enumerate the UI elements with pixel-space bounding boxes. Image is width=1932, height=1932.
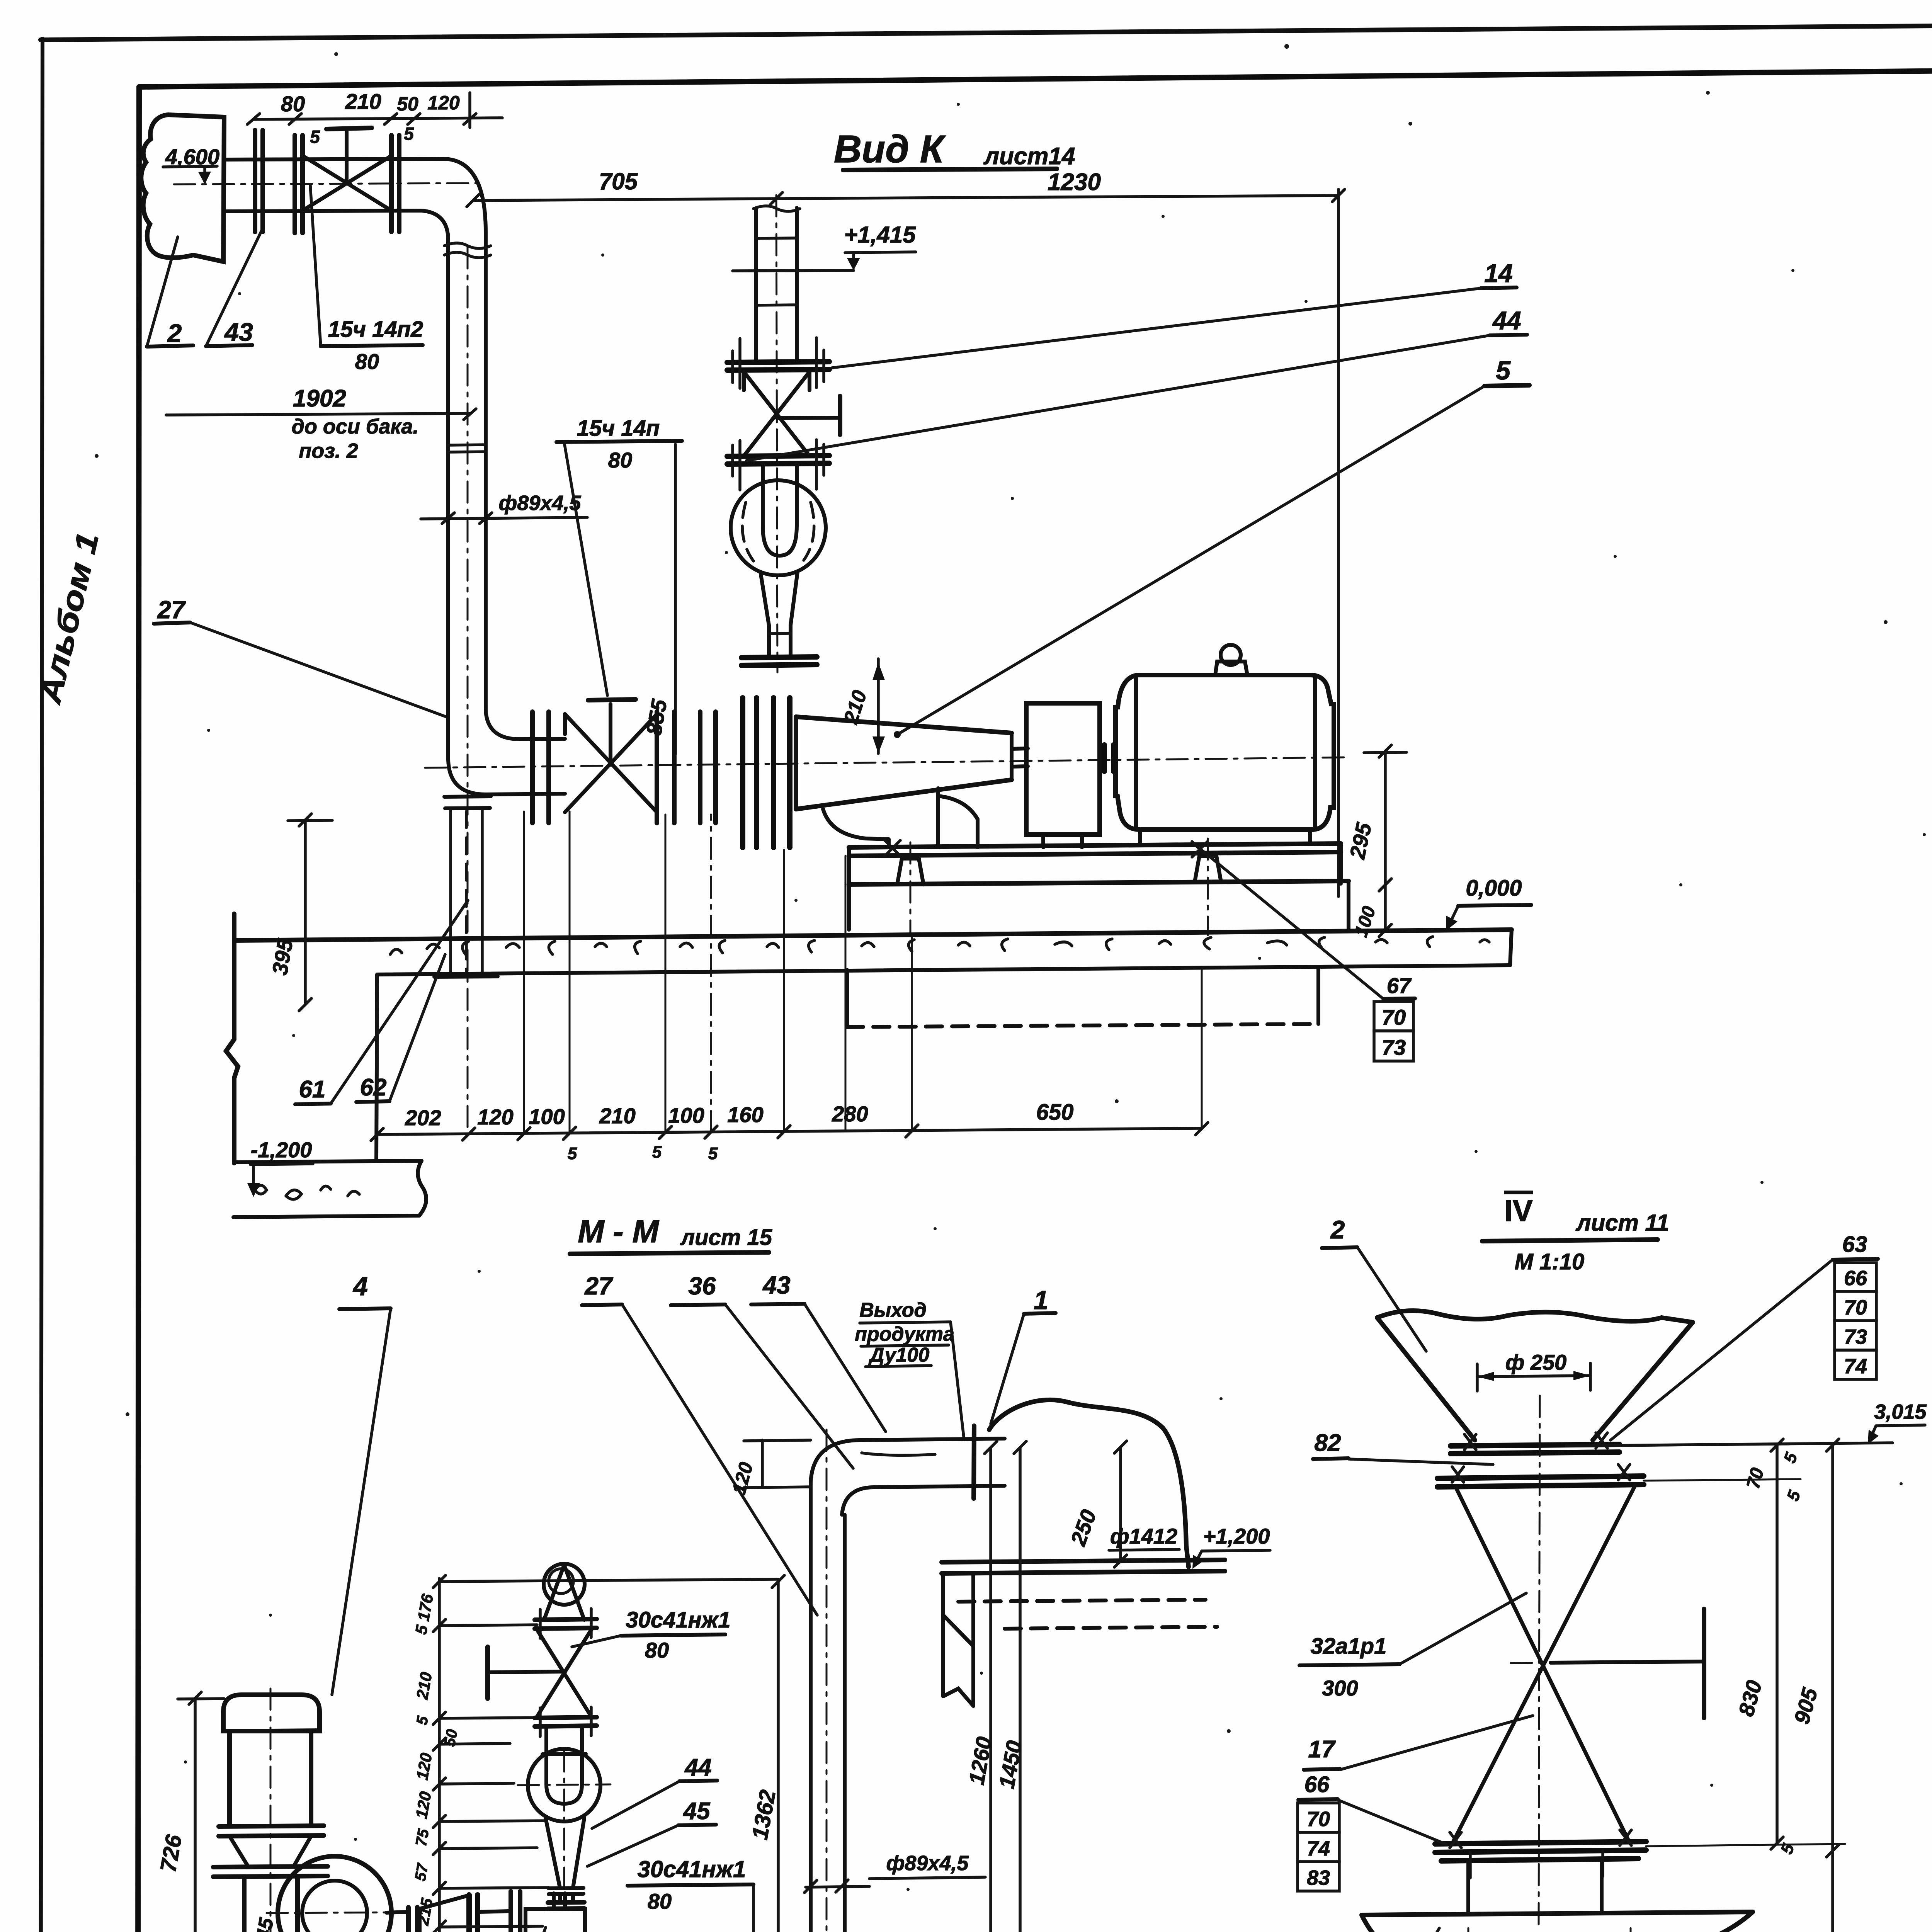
svg-text:73: 73: [1382, 1035, 1406, 1060]
svg-text:83: 83: [1307, 1866, 1330, 1889]
pipe top edge: [224, 159, 486, 232]
leader 67: [1202, 850, 1415, 999]
floor top line: [234, 930, 1512, 940]
svg-text:43: 43: [224, 318, 253, 346]
svg-text:75: 75: [413, 1827, 432, 1847]
floor step: [376, 975, 377, 1160]
dim ф250: [1477, 1350, 1590, 1391]
discharge spool: [479, 1911, 509, 1932]
svg-text:66: 66: [1304, 1772, 1330, 1797]
svg-text:5: 5: [404, 124, 414, 144]
leader label 14: [832, 259, 1517, 368]
inner frame top: [139, 71, 1932, 87]
label podvod vody: [242, 1927, 546, 1932]
boxed label 70: [1374, 1002, 1413, 1031]
stack pipe top break: [753, 206, 800, 211]
tank bottom plate: [942, 1560, 1225, 1629]
label 36: [671, 1272, 853, 1468]
dim chain line: [377, 1128, 1202, 1134]
label 61: [295, 900, 468, 1104]
dim 120 elbow: [728, 1440, 811, 1497]
svg-text:300: 300: [1322, 1676, 1358, 1700]
svg-text:100: 100: [529, 1104, 565, 1129]
label ф1412: [1109, 1524, 1179, 1550]
svg-text:лист 11: лист 11: [1575, 1210, 1669, 1236]
svg-text:5: 5: [652, 1143, 662, 1162]
flange pair F3: [391, 135, 399, 232]
svg-text:120: 120: [477, 1105, 513, 1129]
discharge flange: [469, 1895, 478, 1932]
svg-text:15ч 14п2: 15ч 14п2: [328, 317, 423, 342]
level mark +1,415: [733, 222, 916, 271]
IV extension lines: [1619, 1444, 1845, 1846]
svg-text:705: 705: [599, 168, 638, 194]
flange pair F1: [255, 130, 263, 232]
label 43 mm: [751, 1271, 886, 1432]
riser pipe left wall: [446, 240, 450, 760]
mm riser right wall: [843, 1515, 847, 1932]
svg-text:0,000: 0,000: [1466, 876, 1522, 901]
svg-text:27: 27: [584, 1272, 614, 1300]
IV bottom flange: [1435, 1830, 1646, 1878]
tank support bracket: [943, 1573, 973, 1706]
svg-text:до оси бака.: до оси бака.: [292, 415, 419, 438]
svg-text:120: 120: [427, 92, 460, 114]
svg-text:73: 73: [1844, 1325, 1867, 1349]
dim 1902: [166, 385, 476, 463]
ladder dim lines: [439, 1579, 778, 1932]
dim 905: [1789, 1439, 1839, 1857]
IV centerline vertical: [1539, 1396, 1540, 1927]
IV centerline horizontal: [1511, 1662, 1704, 1663]
svg-text:210: 210: [599, 1104, 635, 1128]
svg-text:IV: IV: [1504, 1194, 1533, 1228]
tank 2 wall blob: [141, 115, 224, 262]
dimension line 80/210/50/120: [247, 93, 502, 128]
svg-text:61: 61: [299, 1076, 326, 1103]
dim 250: [1066, 1441, 1127, 1567]
stack centerline: [776, 195, 777, 672]
label 2 IV: [1322, 1215, 1426, 1351]
stack top circle: [544, 1564, 585, 1605]
svg-text:70: 70: [1382, 1005, 1406, 1029]
stack lower flange: [535, 1707, 597, 1736]
label 2: [147, 237, 193, 347]
motor flange: [213, 1826, 328, 1877]
suction flange pair C: [700, 712, 716, 823]
svg-text:ф 250: ф 250: [1505, 1350, 1567, 1374]
dim 855: [641, 444, 675, 754]
bearing block: [1026, 703, 1100, 847]
suction pipe centerline: [174, 183, 479, 184]
label ф89х4,5 mm: [804, 1852, 985, 1893]
dim 100: [1351, 885, 1391, 939]
pipe bottom edge: [224, 211, 448, 240]
svg-text:32а1р1: 32а1р1: [1311, 1634, 1387, 1659]
stack valve stem T: [488, 1647, 564, 1699]
ladder texts: [409, 1592, 461, 1932]
dim 395 vertical: [267, 814, 332, 1011]
svg-text:3,015: 3,015: [1874, 1400, 1927, 1423]
svg-text:+1,200: +1,200: [1203, 1524, 1270, 1548]
elbow circle: [731, 480, 826, 575]
svg-text:50: 50: [397, 93, 418, 115]
pump inlet flange bars: [743, 698, 790, 847]
dim 1362 vertical: [747, 1575, 784, 1932]
floor hatch squiggles: [390, 937, 1489, 954]
svg-text:100: 100: [668, 1103, 704, 1128]
svg-text:66: 66: [1844, 1267, 1867, 1290]
suction flange pair B: [657, 712, 674, 823]
svg-text:лист14: лист14: [983, 143, 1075, 170]
pump foot: [889, 788, 978, 847]
mm riser elbow top: [811, 1439, 973, 1515]
motor feet and baseplate: [849, 830, 1341, 884]
leader label 5: [894, 356, 1529, 738]
label 30c41nj1 top: [572, 1607, 731, 1662]
stack top flange: [535, 1565, 597, 1638]
svg-text:ф89х4,5: ф89х4,5: [886, 1852, 969, 1875]
stack pipe left wall: [754, 209, 758, 361]
svg-text:ф89х4,5: ф89х4,5: [499, 492, 582, 515]
svg-text:Вид К: Вид К: [834, 128, 946, 171]
level mark 4,600: [163, 145, 219, 184]
riser centerline: [467, 247, 469, 1132]
reducer cone below elbow: [760, 572, 798, 657]
left label stack boxes: [1298, 1803, 1339, 1891]
discharge cone: [420, 1896, 468, 1932]
ladder ticks: [433, 1575, 446, 1932]
svg-text:М 1:10: М 1:10: [1515, 1249, 1585, 1274]
svg-text:67: 67: [1387, 973, 1412, 998]
mm riser left wall: [809, 1486, 813, 1932]
outer border top: [41, 26, 1932, 40]
vertical pump motor: [223, 1689, 320, 1932]
foundation top: [849, 881, 1349, 930]
suction valve stem: [588, 699, 636, 763]
pump discharge pipe: [386, 1907, 417, 1932]
inlet flange plate: [742, 657, 817, 665]
IV valve stem T: [1551, 1609, 1704, 1718]
tee body: [511, 1891, 585, 1932]
IV funnel: [1377, 1311, 1693, 1440]
svg-text:лист 15: лист 15: [680, 1225, 772, 1250]
svg-text:2: 2: [1330, 1215, 1345, 1244]
svg-text:63: 63: [1842, 1232, 1867, 1257]
svg-text:80: 80: [648, 1889, 672, 1913]
svg-text:14: 14: [1484, 259, 1512, 287]
svg-text:4: 4: [352, 1272, 368, 1301]
pit slab: [233, 1161, 426, 1217]
dim 295: [1345, 745, 1406, 891]
level +1,200: [1192, 1524, 1270, 1569]
svg-text:+1,415: +1,415: [844, 222, 916, 248]
svg-text:70: 70: [1307, 1808, 1330, 1831]
level 3,015: [1566, 1400, 1927, 1446]
svg-text:43: 43: [762, 1271, 790, 1299]
centerline pad right: [1207, 838, 1209, 935]
svg-text:5: 5: [708, 1144, 718, 1163]
right label stack 63: [1611, 1232, 1878, 1440]
svg-text:ф1412: ф1412: [1110, 1524, 1177, 1548]
IV top flange bar 1: [1451, 1433, 1619, 1454]
label 62: [356, 954, 445, 1102]
svg-text:280: 280: [832, 1102, 868, 1126]
label 4: [332, 1272, 391, 1695]
IV top flange bar 2: [1437, 1464, 1644, 1487]
svg-text:80: 80: [281, 92, 305, 116]
label vyhod produkta: [855, 1299, 964, 1440]
coupling: [1104, 745, 1114, 771]
label 32a1p1/300: [1299, 1593, 1526, 1700]
svg-text:62: 62: [360, 1074, 387, 1101]
svg-text:44: 44: [684, 1754, 712, 1781]
label 15ч14п/80: [556, 416, 682, 696]
svg-text:1230: 1230: [1048, 169, 1101, 196]
svg-text:поз. 2: поз. 2: [299, 439, 358, 463]
svg-text:5: 5: [310, 127, 320, 147]
label 1: [991, 1286, 1056, 1424]
stack valve 14 body: [744, 372, 810, 456]
label 82: [1313, 1430, 1493, 1464]
tank 1 wall: [989, 1400, 1189, 1567]
svg-text:45: 45: [683, 1798, 711, 1825]
elbow U pipe: [742, 464, 814, 561]
svg-text:15ч 14п: 15ч 14п: [577, 416, 660, 441]
ladder line: [438, 1578, 441, 1932]
motor lifting eye: [1215, 645, 1247, 675]
wall left edge: [226, 914, 238, 1163]
leader label 44: [747, 306, 1527, 461]
label 44 mm: [592, 1754, 717, 1828]
svg-text:74: 74: [1307, 1837, 1330, 1860]
elbow support column: [434, 810, 498, 977]
valve 43 stem: [327, 128, 372, 183]
svg-text:70: 70: [1844, 1296, 1867, 1319]
pump volute cone: [796, 717, 1012, 839]
level mark -1,200: [247, 1138, 313, 1197]
label 7: [1342, 1928, 1439, 1932]
dim 210 vertical: [840, 659, 885, 753]
boxed label 73: [1374, 1031, 1413, 1061]
valve 43 body: [303, 156, 391, 211]
outer border left: [40, 39, 43, 1932]
stack flange lower: [727, 440, 829, 490]
stack flange upper: [727, 338, 829, 388]
riser pipe right wall: [484, 232, 488, 709]
dim line 705+1230: [467, 189, 1345, 207]
chain ticks: [371, 1122, 1208, 1141]
svg-text:50: 50: [441, 1728, 461, 1748]
stack weld seams: [756, 238, 797, 305]
svg-text:80: 80: [645, 1638, 669, 1662]
dim 1260 vertical: [964, 1441, 997, 1932]
svg-text:80: 80: [355, 349, 379, 374]
IV reducer X: [1453, 1485, 1635, 1842]
svg-text:продукта: продукта: [855, 1323, 954, 1345]
riser weld seams: [448, 445, 486, 452]
label 27: [154, 596, 448, 718]
stack pipe right wall: [795, 208, 799, 361]
centerline pad left: [910, 842, 912, 935]
mm riser centerline: [826, 1430, 828, 1932]
svg-text:30с41нж1: 30с41нж1: [626, 1607, 730, 1633]
svg-text:1902: 1902: [293, 385, 346, 412]
anchor marks: [885, 840, 1207, 857]
svg-text:27: 27: [157, 596, 186, 624]
pump volute circle: [267, 1856, 406, 1932]
label ф89х4,5: [421, 492, 587, 524]
left label stack 66: [1298, 1772, 1446, 1844]
svg-text:202: 202: [405, 1105, 441, 1130]
view title Вид К лист 14: [834, 128, 1075, 171]
stack elbow circle: [518, 1749, 611, 1909]
svg-text:650: 650: [1036, 1100, 1074, 1125]
svg-text:160: 160: [727, 1102, 763, 1127]
IV title: [1482, 1194, 1669, 1274]
foundation pad right: [1195, 856, 1221, 882]
label 15ч14п2/80: [310, 185, 423, 374]
svg-text:17: 17: [1308, 1736, 1336, 1763]
svg-text:80: 80: [608, 448, 632, 472]
svg-text:2: 2: [167, 319, 182, 347]
svg-text:210: 210: [345, 89, 381, 114]
svg-text:82: 82: [1315, 1430, 1341, 1456]
flange pair F2: [295, 135, 303, 233]
level mark 0,000: [1446, 876, 1531, 930]
suction flange pair A: [532, 712, 549, 823]
svg-text:5: 5: [568, 1144, 577, 1163]
riser pipe break: [444, 243, 491, 258]
pump pedestal: [224, 1877, 318, 1932]
label 27 mm: [582, 1272, 817, 1615]
extension line right: [1337, 189, 1340, 896]
IV tank bottom: [1362, 1912, 1753, 1932]
right label stack boxes: [1835, 1263, 1876, 1379]
stack valve stem: [777, 396, 840, 435]
svg-text:ф395: ф395: [1507, 1929, 1562, 1932]
tank wall face bar: [974, 1426, 974, 1498]
svg-text:74: 74: [1844, 1355, 1867, 1378]
section title M-M: [570, 1214, 772, 1254]
floor right cap: [1510, 930, 1512, 965]
dim 1450 vertical: [994, 1441, 1027, 1932]
stack neck pipe: [543, 1726, 586, 1754]
label 45: [587, 1798, 716, 1866]
svg-text:-1,200: -1,200: [251, 1138, 312, 1162]
pump axis centerline: [425, 757, 1345, 768]
small 5 marks: [1777, 1450, 1804, 1857]
inner frame left: [138, 87, 139, 1932]
stack valve 44 body: [537, 1630, 591, 1716]
tank nozzle lines: [973, 1439, 1005, 1486]
bottom elbow of riser: [444, 709, 565, 808]
label 30c41nj1 bottom: [628, 1856, 753, 1932]
IV nozzle stubs: [1468, 1860, 1602, 1913]
foundation dashed bottom: [847, 968, 1318, 1027]
dim ф395: [1444, 1928, 1637, 1932]
dim 2100: [1804, 1851, 1837, 1932]
suction valve body: [565, 714, 657, 812]
svg-text:Выход: Выход: [859, 1299, 927, 1321]
svg-text:30с41нж1: 30с41нж1: [638, 1856, 746, 1882]
cyclone cone 45: [546, 1818, 584, 1909]
foundation pad left: [897, 859, 923, 884]
chain extension lines: [377, 811, 1202, 1134]
svg-text:М - М: М - М: [578, 1214, 659, 1249]
svg-text:1: 1: [1034, 1286, 1048, 1315]
pump shaft: [1012, 748, 1028, 767]
motor body: [1116, 675, 1334, 830]
svg-text:36: 36: [688, 1272, 716, 1300]
floor bottom line: [377, 965, 1510, 975]
svg-text:Ду100: Ду100: [868, 1344, 930, 1366]
dim 726: [155, 1692, 224, 1932]
svg-text:5: 5: [1496, 356, 1511, 385]
label 43: [206, 231, 262, 346]
dim 830: [1734, 1439, 1783, 1849]
label 17: [1304, 1716, 1533, 1770]
svg-text:44: 44: [1492, 306, 1521, 335]
